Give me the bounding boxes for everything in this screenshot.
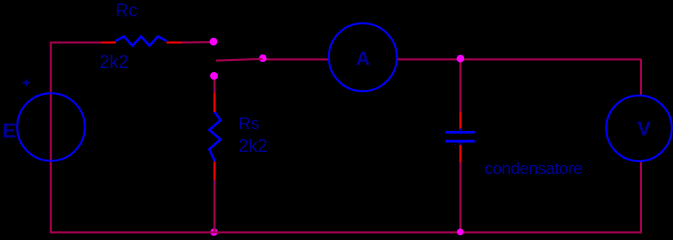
capacitor C1 bottom plate: [445, 140, 475, 143]
label + polarity mark: [22, 82, 30, 84]
svg-text:E: E: [2, 119, 16, 142]
wire switch lever from open end to pivot node: [216, 59, 263, 61]
wire from ammeter right terminal to top-right corner: [397, 58, 642, 60]
wire right vertical upper segment down to voltmeter: [640, 59, 642, 96]
pin red segment Rs top: [214, 93, 216, 112]
resistor R1 Rc zigzag: [116, 36, 167, 45]
pin red segment Rc right: [167, 42, 183, 44]
capacitor C1 stub top: [459, 129, 461, 132]
voltmeter V1 circle: [606, 96, 672, 162]
wire bottom horizontal: [50, 231, 642, 233]
pin red segment capacitor top: [459, 112, 461, 131]
capacitor C1 top plate: [445, 131, 475, 134]
node B dot (switch bottom contact to Rs): [210, 72, 218, 80]
ammeter A1 circle: [329, 23, 397, 91]
wire from pivot node to ammeter left terminal: [263, 58, 330, 60]
svg-text:Rs: Rs: [239, 114, 260, 133]
wire from Rc right terminal to node A: [182, 41, 212, 43]
node pivot dot of switch on ammeter wire: [259, 54, 267, 62]
source E circle: [17, 93, 85, 161]
svg-text:V: V: [637, 119, 651, 141]
svg-text:condensatore: condensatore: [485, 159, 583, 178]
pin red segment Rc left: [101, 42, 116, 44]
wire from Rs bottom terminal to bottom wire: [214, 180, 216, 233]
resistor R2 Rs zigzag: [209, 112, 220, 161]
capacitor C1 stub bottom: [459, 142, 461, 145]
svg-text:A: A: [356, 49, 370, 70]
wire from node C down to capacitor: [459, 59, 461, 112]
wire from capacitor bottom to bottom wire: [459, 162, 461, 232]
wire left vertical from top-left corner through E down to bottom-left corner: [50, 42, 52, 233]
pin red segment capacitor bottom: [459, 143, 461, 163]
wire from node B down to Rs: [214, 78, 216, 94]
node under-dot at Rs bottom junction: [210, 228, 217, 235]
svg-text:2k2: 2k2: [100, 52, 129, 72]
node D dot (capacitor bottom junction on bottom wire): [457, 229, 464, 236]
pin red segment Rs bottom: [214, 162, 216, 181]
wire top horizontal from corner to Rc: [50, 42, 101, 44]
svg-text:Rc: Rc: [116, 1, 138, 21]
node C dot (ammeter wire / capacitor top junction): [457, 55, 465, 63]
node A dot (Rc right, switch top contact): [210, 38, 218, 46]
svg-text:2k2: 2k2: [239, 136, 268, 156]
wire right vertical lower segment from voltmeter to bottom-right corner: [640, 161, 642, 234]
